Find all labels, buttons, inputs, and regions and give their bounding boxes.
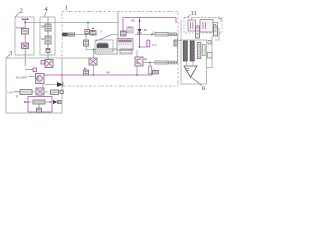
transistor Q1 (135, 57, 143, 66)
svg-text:D1: D1 (144, 29, 148, 32)
label 11 leader (187, 15, 191, 18)
net feedback magenta rail (44, 72, 152, 76)
regulator sub-box magenta (28, 97, 52, 113)
svg-text:RD: RD (41, 26, 45, 29)
resistor R10 (63, 33, 68, 36)
socket J1 (188, 19, 196, 32)
inductor L3 coil (168, 61, 177, 64)
text C17 (154, 69, 156, 72)
enclosure box 3 (6, 58, 62, 113)
wire transformer to Q1 (136, 50, 138, 57)
junction (24, 22, 26, 24)
op-amp U5 (184, 61, 197, 78)
capacitor C15 (139, 40, 150, 48)
junction (151, 34, 153, 36)
resistor R20 (155, 61, 168, 64)
fuse F1 in box 2 (22, 29, 29, 35)
bus wire top (25, 22, 118, 24)
svg-text:Q1: Q1 (144, 58, 148, 61)
resistor R1 small (33, 68, 37, 72)
net VCC magenta (123, 18, 176, 32)
transformer winding W1 (95, 49, 117, 54)
small tick box (208, 41, 211, 45)
wire gnd across (62, 57, 89, 59)
svg-text:TR1: TR1 (131, 20, 137, 23)
optocoupler U4 (89, 58, 97, 65)
text D1 (144, 29, 148, 32)
component on box edge (51, 90, 59, 95)
text Q1 (144, 58, 148, 61)
junction nodes (25, 101, 53, 103)
text S (101, 30, 103, 34)
text R0 (107, 72, 111, 75)
resistor R31 vertical (214, 26, 218, 36)
text mains (8, 90, 14, 94)
wire (28, 76, 36, 78)
junction (87, 22, 89, 24)
wire battery chain (24, 19, 26, 66)
capacitor C21 electrolytic (190, 41, 194, 61)
wire input (14, 91, 21, 93)
transformer winding W2 (120, 49, 132, 54)
wire chain into box 3 (25, 69, 33, 71)
wire plug stub (197, 30, 200, 32)
IC U2 (121, 31, 127, 36)
svg-text:2: 2 (20, 8, 23, 15)
resistor R21 on rail (153, 71, 159, 75)
wire Q1 source (136, 66, 138, 75)
resistor R3 small (41, 61, 45, 65)
enclosure box 2 (15, 17, 34, 55)
rail mid (62, 34, 97, 36)
diode VD2 (52, 100, 61, 104)
label 2 leader (15, 13, 20, 18)
label 3 (9, 50, 12, 57)
rectifier BR1 (36, 88, 44, 95)
wire drop x88 (87, 23, 89, 30)
resistor RD in box 4 (45, 24, 51, 31)
switch S1 in box 2 (22, 43, 29, 49)
svg-text:1: 1 (65, 5, 68, 12)
resistor R11 (68, 33, 75, 36)
text Accum (16, 26, 25, 30)
resistor R32 (202, 45, 205, 56)
transistor VT1 (45, 58, 53, 68)
resistor R2 (33, 100, 45, 104)
dashed enclosure box 1 (62, 12, 178, 87)
label 1 (65, 5, 68, 12)
svg-text:NL: NL (41, 38, 45, 41)
text RD (41, 26, 45, 29)
text C16 (153, 32, 157, 35)
wire connector ground (180, 20, 182, 40)
label 4 leader (44, 12, 47, 18)
junction (93, 49, 95, 51)
rail drive (143, 62, 178, 64)
capacitor C20 electrolytic (183, 41, 187, 61)
svg-text:L-N: L-N (8, 90, 14, 94)
tick mark (16, 95, 18, 98)
wire primary vertical (117, 12, 119, 39)
rail secondary (135, 34, 178, 36)
svg-text:3: 3 (9, 50, 12, 57)
wire C11 to winding (86, 46, 95, 50)
text TR1 (131, 20, 137, 23)
label 4 (45, 6, 49, 13)
wire secondary return (93, 50, 95, 76)
capacitor C11 (84, 35, 89, 47)
diode D4 (137, 18, 141, 47)
wire top connection (178, 40, 182, 42)
label 11 (191, 10, 197, 17)
capacitor C17 (148, 63, 151, 75)
output enclosure box (181, 40, 207, 84)
wire diode anode (61, 75, 63, 82)
plug enclosure box 11 (184, 18, 222, 34)
label 3 leader (6, 55, 10, 58)
capacitor C10 polarized (90, 28, 96, 36)
small mark on edge (60, 90, 63, 93)
connector J2 (200, 20, 218, 33)
label 6 leader (192, 78, 203, 86)
switch arm S1 (95, 35, 118, 42)
text AC220V (16, 76, 28, 80)
sensor chain in box 4 (46, 17, 50, 58)
varistor RV1 (85, 30, 90, 34)
junction nodes on rail (61, 74, 138, 76)
transistor VT2 (36, 74, 45, 84)
switch IC U3 (127, 27, 133, 33)
inductor L1 (155, 33, 168, 37)
wire collector down (42, 84, 44, 93)
text C15 (152, 44, 157, 47)
filter FL1 (20, 90, 32, 95)
thermistor NTC in box 4 (45, 36, 51, 44)
relay K1 box (95, 40, 113, 52)
resistor R30 vertical (196, 26, 200, 38)
enclosure box 4 (40, 17, 55, 55)
svg-text:C15: C15 (152, 44, 157, 47)
junction (149, 62, 151, 64)
diode VD1 (45, 82, 63, 87)
svg-text:11: 11 (191, 10, 197, 17)
text NTC (41, 38, 45, 41)
inductor L2 coil (168, 33, 177, 36)
capacitor C18 polarized (84, 68, 89, 76)
capacitor C2 (37, 104, 42, 112)
junction node (85, 34, 87, 36)
wire (32, 91, 48, 93)
wire right rail (177, 35, 179, 63)
capacitor C16 (174, 40, 178, 46)
label 2 (20, 8, 23, 15)
wire right column (207, 28, 220, 68)
wire BR1 down (39, 95, 41, 97)
battery B1 terminal in box 2 (22, 18, 29, 23)
small box right (208, 53, 213, 59)
label 6 (202, 85, 206, 92)
svg-text:AC220V: AC220V (16, 76, 28, 80)
transformer TR1 core (117, 39, 133, 51)
cord marks (219, 19, 222, 22)
capacitor C22 (197, 43, 201, 59)
